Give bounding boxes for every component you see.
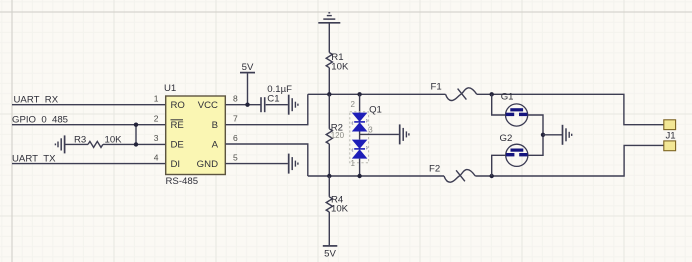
svg-text:J1: J1 [666, 131, 676, 142]
svg-text:6: 6 [233, 133, 238, 143]
wire R1 to top bus [328, 68, 330, 95]
svg-text:RO: RO [171, 100, 185, 111]
svg-text:A: A [212, 140, 219, 151]
wire G1 branch [492, 94, 506, 115]
junction G2 branch [490, 174, 494, 178]
svg-text:10K: 10K [331, 204, 349, 215]
wire ground to R3 [65, 143, 88, 145]
svg-text:DE: DE [171, 140, 184, 151]
op-amp U1 body (RS-485 transceiver) [166, 96, 226, 175]
svg-text:3: 3 [368, 126, 373, 135]
junction at pin3 link [134, 142, 138, 146]
connector J1 pad 2 [664, 141, 676, 151]
svg-text:GND: GND [197, 159, 218, 170]
svg-text:DI: DI [171, 159, 181, 170]
wire pin 7 (B) up to top bus [226, 94, 308, 124]
svg-text:UART_RX: UART_RX [14, 95, 59, 106]
resistor R2 [326, 94, 332, 176]
wire to ground (G1/G2) [543, 134, 562, 136]
wire G2 branch [492, 155, 506, 176]
wire bottom bus (A net) [308, 175, 444, 177]
capacitor C1 [261, 97, 265, 112]
wire UART_TX to pin 4 [12, 163, 166, 165]
svg-text:GPIO_0_485: GPIO_0_485 [12, 115, 68, 126]
fuse F1 [446, 88, 477, 101]
svg-text:RS-485: RS-485 [166, 176, 199, 187]
junction 5V / C1 [245, 103, 249, 107]
ground (Q1 pin 3) [400, 124, 409, 144]
resistor R4 [326, 176, 332, 245]
svg-text:3: 3 [154, 133, 159, 143]
svg-text:B: B [212, 120, 218, 131]
wire vertical link pin2-pin3 [135, 125, 137, 145]
junction R1/R2 top [327, 92, 331, 96]
wire pin 8 to C1 [226, 104, 261, 106]
svg-text:Q1: Q1 [369, 105, 382, 116]
connector J1 pad 1 [664, 120, 676, 130]
wire Q1 pin 3 to ground [360, 133, 399, 135]
svg-text:8: 8 [233, 94, 238, 104]
svg-text:VCC: VCC [198, 100, 218, 111]
svg-text:RE: RE [171, 120, 184, 131]
wire GPIO_0_485 to pin 2 [12, 124, 166, 126]
ground (C1) [289, 95, 298, 115]
tube G2 (gas discharge tube) [506, 144, 528, 166]
resistor R1 [326, 53, 332, 68]
wire F2 to corner [475, 145, 664, 176]
wire F1 to corner [477, 94, 664, 124]
svg-text:F1: F1 [431, 82, 442, 93]
svg-text:5V: 5V [242, 62, 254, 73]
svg-text:U1: U1 [164, 83, 176, 94]
svg-text:10K: 10K [331, 62, 349, 73]
power 5V (top) [240, 62, 255, 73]
wire ground to R1 [328, 23, 330, 53]
svg-text:G2: G2 [500, 133, 513, 144]
junction G1/G2 [541, 133, 545, 137]
svg-text:2: 2 [351, 100, 356, 109]
wire UART_RX to pin 1 [12, 104, 166, 106]
svg-text:F2: F2 [429, 164, 440, 175]
svg-text:5: 5 [233, 153, 238, 163]
wire R3 to pin 3 [103, 143, 166, 145]
resistor R3 [88, 141, 103, 147]
ground (top, above R1) [318, 13, 340, 23]
fuse F2 [444, 170, 475, 183]
wire 5V down to pin 8 net [247, 73, 249, 104]
svg-text:C1: C1 [267, 93, 279, 104]
ground (left of R3) [55, 135, 64, 153]
junction R2/R4 bottom [327, 174, 331, 178]
junction Q1 top [357, 92, 361, 96]
wire pin 6 (A) down to bottom bus [226, 144, 308, 176]
svg-text:UART_TX: UART_TX [12, 154, 56, 165]
power 5V (bottom) [323, 246, 338, 259]
junction at pin2 link [134, 123, 138, 127]
svg-text:2: 2 [154, 114, 159, 124]
junction Q1 bottom [357, 174, 361, 178]
wire C1 to ground [266, 104, 288, 106]
ground (pin 5) [289, 154, 298, 174]
svg-text:1: 1 [154, 94, 159, 104]
transistor Q1 (dual TVS array) [350, 94, 369, 176]
svg-text:4: 4 [154, 153, 159, 163]
svg-text:5V: 5V [324, 248, 336, 259]
wire G1 right [528, 115, 543, 135]
tube G1 (gas discharge tube) [505, 104, 527, 126]
pin name RE (active low) [171, 120, 184, 131]
junction G1 branch [490, 92, 494, 96]
svg-text:7: 7 [233, 114, 238, 124]
svg-text:G1: G1 [501, 92, 514, 103]
wire top bus (B net) [308, 93, 446, 95]
svg-text:R3: R3 [74, 135, 86, 146]
wire pin 5 (GND) to ground [226, 163, 288, 165]
svg-text:120: 120 [331, 131, 345, 140]
ground (G1/G2) [563, 125, 572, 145]
svg-text:1: 1 [351, 159, 356, 168]
wire G2 right [528, 135, 543, 156]
